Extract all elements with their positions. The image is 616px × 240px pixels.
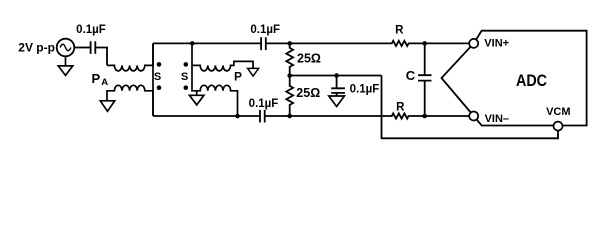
- svg-text:25Ω: 25Ω: [297, 51, 321, 65]
- svg-text:0.1µF: 0.1µF: [250, 24, 280, 36]
- svg-text:0.1µF: 0.1µF: [76, 24, 106, 36]
- svg-text:25Ω: 25Ω: [296, 86, 320, 100]
- svg-text:0.1µF: 0.1µF: [249, 98, 279, 110]
- svg-text:C: C: [406, 68, 416, 83]
- svg-text:2V p-p: 2V p-p: [18, 41, 55, 55]
- svg-text:VIN+: VIN+: [484, 38, 509, 50]
- svg-text:0.1µF: 0.1µF: [350, 83, 380, 95]
- svg-text:R: R: [395, 25, 404, 37]
- svg-text:A: A: [101, 77, 108, 88]
- svg-text:VIN–: VIN–: [485, 113, 509, 125]
- svg-text:P: P: [92, 71, 101, 86]
- svg-text:P: P: [234, 70, 242, 84]
- svg-text:ADC: ADC: [516, 72, 547, 90]
- svg-text:S: S: [181, 71, 188, 83]
- svg-text:VCM: VCM: [546, 106, 570, 118]
- svg-text:R: R: [396, 101, 405, 113]
- svg-text:S: S: [154, 71, 161, 83]
